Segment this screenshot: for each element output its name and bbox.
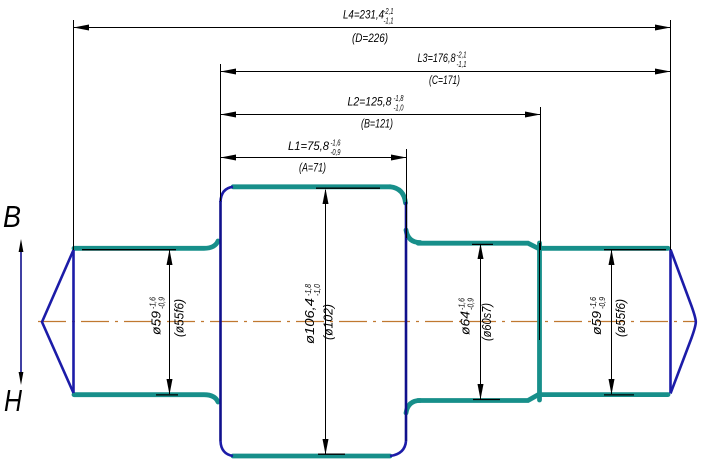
svg-text:-1,8: -1,8 <box>394 94 404 103</box>
svg-text:(ø55f6): (ø55f6) <box>613 299 628 337</box>
svg-text:L4=231,4: L4=231,4 <box>343 8 384 22</box>
svg-text:(ø60s7): (ø60s7) <box>479 303 494 341</box>
svg-text:-0,9: -0,9 <box>467 298 476 310</box>
svg-text:(C=171): (C=171) <box>429 73 460 87</box>
svg-text:(A=71): (A=71) <box>299 161 326 175</box>
svg-text:(ø55f6): (ø55f6) <box>172 299 187 337</box>
svg-text:(D=226): (D=226) <box>352 31 388 45</box>
svg-text:-1,8: -1,8 <box>304 284 313 296</box>
svg-text:ø106,4: ø106,4 <box>302 298 317 344</box>
svg-text:(ø102): (ø102) <box>321 304 336 340</box>
svg-text:-1,0: -1,0 <box>394 104 404 113</box>
svg-text:-1,1: -1,1 <box>457 60 467 69</box>
svg-text:L2=125,8: L2=125,8 <box>348 95 392 109</box>
svg-text:-1,6: -1,6 <box>458 298 467 310</box>
svg-text:-0,9: -0,9 <box>598 297 607 309</box>
svg-text:ø59: ø59 <box>589 311 604 335</box>
svg-text:-2,1: -2,1 <box>457 51 467 60</box>
svg-text:-0,9: -0,9 <box>158 297 167 309</box>
svg-text:В: В <box>3 199 21 234</box>
svg-text:-1,1: -1,1 <box>384 17 394 26</box>
svg-text:(B=121): (B=121) <box>361 117 393 131</box>
svg-text:ø59: ø59 <box>149 311 164 335</box>
svg-text:-2,1: -2,1 <box>384 7 394 16</box>
svg-text:Н: Н <box>4 383 22 418</box>
svg-text:-0,9: -0,9 <box>331 148 341 157</box>
svg-text:-1,6: -1,6 <box>331 139 341 148</box>
svg-text:L1=75,8: L1=75,8 <box>288 139 329 153</box>
svg-text:ø64: ø64 <box>458 311 473 335</box>
svg-text:L3=176,8: L3=176,8 <box>418 51 456 65</box>
svg-text:-1,6: -1,6 <box>589 297 598 309</box>
svg-text:-1,6: -1,6 <box>149 297 158 309</box>
svg-text:-1,0: -1,0 <box>313 284 322 296</box>
